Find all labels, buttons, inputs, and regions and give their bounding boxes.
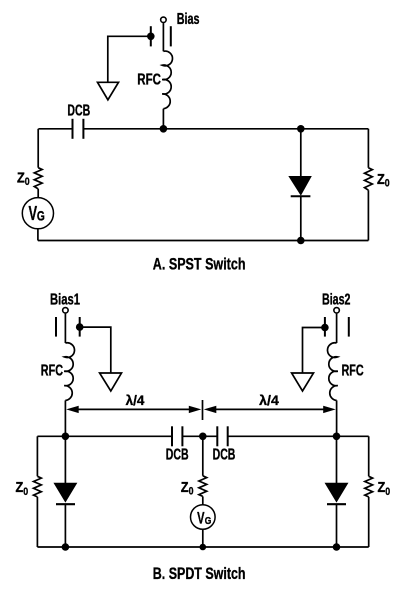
capacitor DCB left plate (A) [72, 119, 74, 139]
terminal Bias1 [63, 308, 69, 314]
capacitor bypass right plate (A) [170, 26, 172, 46]
wire source to bottom (B) [202, 529, 204, 547]
capacitor bypass right plate (B right) [348, 317, 350, 337]
wire bias vertical (A) [162, 23, 164, 51]
resistor Z0 right (B) [365, 476, 373, 497]
svg-text:Bias2: Bias2 [322, 291, 351, 308]
wire main RF line left segment (A) [38, 128, 72, 130]
resistor Z0 left (B) [34, 476, 42, 497]
node left diode bottom (B) [62, 543, 70, 551]
node left diode junction (B) [62, 433, 70, 441]
wire diode cathode (A) [300, 197, 302, 241]
svg-text:λ/4: λ/4 [126, 392, 145, 408]
wire bottom line (B) [37, 546, 368, 548]
svg-text:V: V [197, 508, 204, 527]
svg-text:G: G [205, 516, 212, 527]
svg-text:Z: Z [16, 479, 24, 496]
svg-text:DCB: DCB [213, 447, 236, 464]
wire plate to ground (B left) [80, 327, 111, 373]
node source bottom junction (B) [200, 544, 207, 551]
svg-text:Bias1: Bias1 [50, 291, 80, 308]
node middle junction (B) [199, 433, 207, 441]
svg-text:Z: Z [378, 479, 386, 496]
wire main RF line left segment (B) [37, 435, 172, 437]
node diode top junction (A) [297, 125, 305, 133]
wire plate to ground (A) [108, 36, 151, 82]
source VG (B) [191, 505, 216, 530]
resistor Z0 left (A) [34, 168, 42, 189]
node junction on left plate (A) [147, 33, 155, 41]
diode D3 cathode bar [327, 503, 346, 505]
wire right diode anode (B) [336, 436, 338, 483]
dimension line lambda/4 right [215, 408, 325, 410]
svg-text:0: 0 [23, 486, 28, 498]
inductor RFC (B right coil) [328, 343, 338, 401]
svg-text:Bias: Bias [177, 11, 200, 28]
svg-text:RFC: RFC [137, 71, 161, 88]
source VG (A) [22, 198, 53, 229]
svg-text:0: 0 [25, 176, 30, 188]
ground (B right) [292, 373, 314, 391]
node junction on left plate (B right) [321, 324, 329, 332]
capacitor DCB right plate (A) [82, 119, 84, 139]
wire left diode anode (B) [64, 436, 66, 483]
wire left branch upper (A) [37, 129, 39, 168]
capacitor DCB right plates (B) [216, 426, 218, 446]
ground (A) [98, 82, 119, 100]
svg-text:0: 0 [385, 486, 390, 498]
svg-text:0: 0 [189, 486, 194, 498]
wire bottom line (A) [38, 240, 369, 242]
node junction on right plate (B left) [76, 323, 84, 331]
svg-text:DCB: DCB [166, 447, 189, 464]
diode D1 (A) [289, 177, 310, 195]
wire plate to ground (B right) [303, 328, 325, 374]
wire coil to RF line (A) [162, 109, 164, 129]
node coil junction (A) [160, 125, 168, 133]
wire right diode cathode (B) [336, 504, 338, 547]
wire bias2 vertical [336, 314, 338, 343]
terminal Bias (circuit A) [161, 17, 167, 23]
svg-text:RFC: RFC [342, 363, 364, 380]
svg-text:λ/4: λ/4 [259, 392, 279, 408]
wire resistor to source (B) [202, 496, 204, 504]
ground (B left) [100, 373, 122, 391]
diode D2 (B left) [55, 483, 77, 501]
wire left diode cathode (B) [64, 504, 66, 547]
wire right outer branch lower (B) [368, 497, 370, 547]
svg-text:Z: Z [181, 479, 189, 496]
capacitor bypass left plate (B right) [324, 317, 326, 337]
dimension tick center [202, 400, 204, 420]
capacitor bypass right plate (B left) [79, 317, 81, 337]
dimension line lambda/4 left [78, 408, 190, 410]
svg-text:DCB: DCB [67, 102, 90, 119]
wire resistor to source (A) [37, 189, 39, 198]
node right diode bottom (B) [333, 543, 341, 551]
wire coil to RF line (B left) [64, 400, 66, 436]
wire coil to RF line (B right) [336, 400, 338, 436]
diode D1 cathode bar (A) [291, 195, 311, 197]
node diode bottom junction (A) [297, 237, 305, 245]
inductor RFC (B left coil) [64, 343, 74, 401]
wire source to bottom (A) [37, 229, 39, 241]
svg-text:0: 0 [385, 178, 390, 190]
wire left outer branch upper (B) [36, 436, 38, 476]
wire main RF line middle segment (B) [182, 435, 217, 437]
svg-text:RFC: RFC [41, 363, 63, 380]
diode D3 (B right) [326, 483, 348, 501]
wire middle branch upper (B) [202, 436, 204, 476]
svg-text:Z: Z [17, 169, 25, 186]
resistor Z0 middle (B) [199, 476, 207, 497]
svg-text:G: G [37, 208, 45, 223]
svg-text:Z: Z [377, 171, 385, 188]
svg-text:B. SPDT Switch: B. SPDT Switch [153, 565, 246, 583]
wire diode anode (A) [300, 129, 302, 177]
capacitor bypass left plate (A) [150, 26, 152, 46]
svg-text:A. SPST Switch: A. SPST Switch [153, 255, 246, 273]
wire main RF line right segment (B) [228, 435, 369, 437]
diode D2 cathode bar [56, 503, 75, 505]
wire right branch lower (A) [367, 190, 369, 240]
inductor RFC (A coil) [162, 51, 172, 109]
wire left outer branch lower (B) [36, 497, 38, 547]
terminal Bias2 [334, 308, 340, 314]
wire main RF line right segment (A) [83, 128, 368, 130]
resistor Z0 right (A) [365, 168, 373, 190]
wire right outer branch upper (B) [368, 436, 370, 476]
wire right branch upper (A) [367, 129, 369, 168]
capacitor DCB left plates (B) [171, 426, 173, 446]
node right diode junction (B) [333, 433, 341, 441]
wire bias1 vertical [64, 314, 66, 343]
capacitor bypass left plate (B left) [55, 317, 57, 337]
